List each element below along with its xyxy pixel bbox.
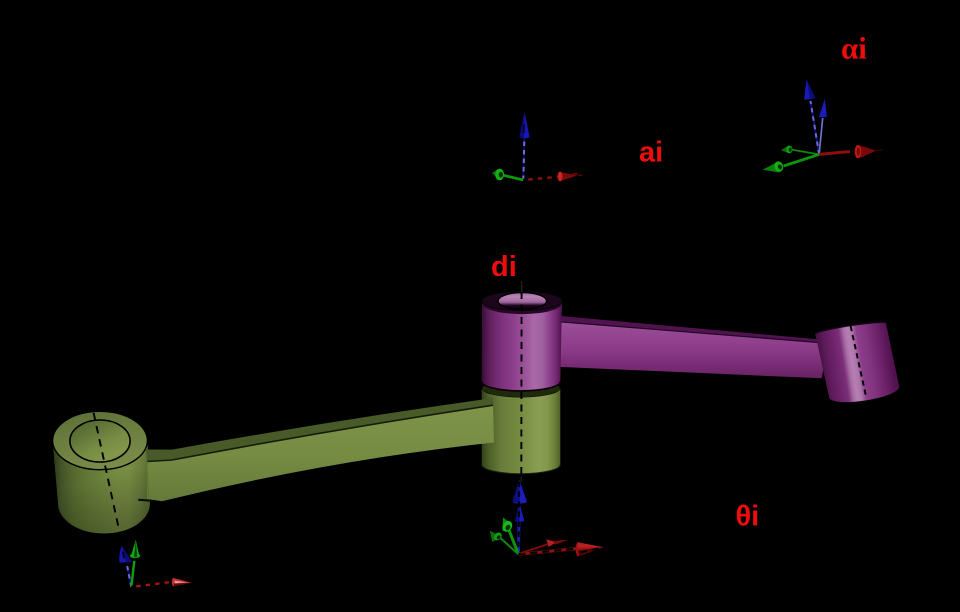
frame A x cone: [557, 172, 577, 182]
frame D z axis dash overlay: [517, 482, 520, 555]
purple central cylinder: top ring face: [482, 292, 562, 311]
joint axis i (dashed, below cylinder): [519, 476, 522, 512]
purple central cylinder: side: [482, 301, 562, 391]
frame D y1 shaft (thick): [508, 528, 518, 554]
purple beam top edge line: [560, 322, 829, 344]
frame C x shaft (dashed): [131, 582, 172, 587]
green link beam top edge line: [147, 405, 493, 461]
green link beam (front face): [147, 405, 494, 501]
svg-text:di: di: [491, 251, 517, 283]
link1 tube: lower-left shade: [40, 430, 160, 540]
green central cylinder: side: [482, 388, 561, 473]
frame C x cone: [172, 578, 192, 586]
frame D x1 shaft (dashed): [518, 549, 576, 555]
frame B y1 shaft (thin): [792, 150, 819, 155]
link1 tube: side surface: [53, 441, 150, 534]
frame A z shaft (dashed light blue): [523, 137, 524, 180]
frame C z cone: [119, 546, 132, 563]
purple central cylinder: bottom silhouette line: [482, 382, 561, 391]
right purple cylinder: top rim line: [815, 322, 886, 334]
frame D y2 cone: [490, 531, 501, 542]
svg-text:θi: θi: [736, 501, 760, 533]
frame D z shaft (dashed wide): [517, 508, 521, 554]
frame A y shaft: [500, 175, 523, 181]
frame B x cone with bright base disk: [859, 146, 876, 158]
purple central cylinder: bore interior: [498, 293, 547, 310]
joint axis i-1 (dashed): [94, 413, 121, 536]
frame D y1 cone: [503, 517, 513, 531]
frame B x shaft: [819, 152, 850, 155]
link1 tube: top ring face: [53, 411, 148, 469]
frame D z cone big: [513, 480, 527, 504]
frame A y cone (seen end-on): [492, 169, 501, 181]
frame A x shaft (dashed dark red): [523, 177, 561, 180]
right purple cylinder: side: [815, 322, 899, 402]
frame A z cone: [520, 112, 530, 138]
frame B z2 shaft (solid): [819, 118, 823, 154]
green link beam (top face): [146, 398, 493, 462]
purple central cylinder: rim shadow on side: [483, 293, 562, 314]
joint axis i (dashed, above cylinder): [521, 281, 523, 292]
frame C y shaft: [131, 561, 134, 587]
frame B y2 cone: [763, 162, 780, 172]
frame B y1 cone: [781, 146, 790, 154]
frame D z cone small: [515, 505, 524, 522]
frame B z1 shaft (dashed): [811, 101, 820, 154]
joint axis i+1 (dashed): [851, 326, 866, 396]
svg-text:αi: αi: [841, 31, 867, 66]
purple beam (front face): [560, 322, 829, 379]
purple beam (top face): [560, 316, 830, 343]
link1 tube: bore interior: [70, 420, 130, 462]
frame D x1 cone: [576, 542, 604, 556]
green link beam left boundary on tube: [147, 461, 149, 497]
frame D x2 cone: [546, 539, 556, 547]
frame B z2 cone: [819, 99, 827, 117]
frame B z1 cone: [804, 79, 815, 100]
frame B y2 shaft (thick): [784, 154, 820, 166]
green central cylinder: top ellipse: [482, 379, 561, 397]
svg-text:ai: ai: [639, 136, 663, 168]
green link beam bottom edge notch at tube: [138, 500, 152, 501]
joint axis i (dashed, through cylinders): [520, 292, 522, 476]
frame D x2 shaft: [521, 544, 549, 553]
frame C y cone: [130, 553, 140, 558]
frame C z shaft (dashed): [127, 566, 131, 587]
green central cylinder: bottom rim line: [482, 465, 561, 474]
frame D y2 shaft: [499, 537, 518, 554]
